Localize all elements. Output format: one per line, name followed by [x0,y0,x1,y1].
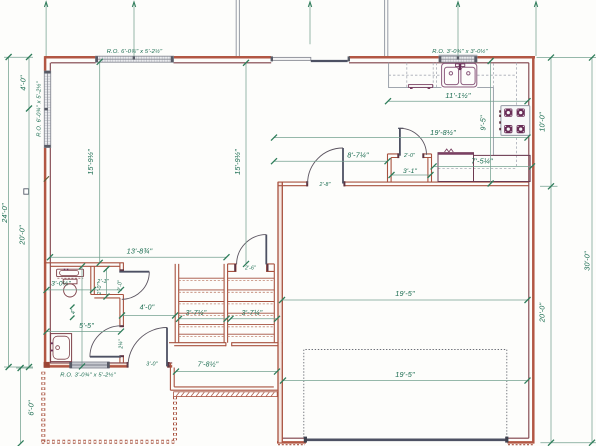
left exterior wall inner line [49,63,51,363]
dim line 13'-8.75 [50,256,227,258]
extension line top left [4,56,33,58]
dim line 19'-5 lower [283,380,528,382]
bar counter top edge [438,152,474,154]
garage door setback dashed outline [304,350,507,438]
stair east wall inner line [273,264,275,343]
stair door left jamb stub [228,264,236,272]
closet left wall [91,266,95,294]
window W3 left wall 6'-0 3/4 x 5'-2 1/2 [44,71,50,148]
svg-text:20'-0": 20'-0" [18,225,27,246]
garage bottom wall outer line [277,441,534,444]
closet south wall [91,295,124,298]
stove knobs [499,110,501,130]
sliding glass door in top wall [271,56,350,61]
svg-text:20'-0": 20'-0" [538,303,547,324]
svg-text:2'-8": 2'-8" [318,182,331,188]
porch dashed border right edge [173,397,177,441]
dim line 30'-0 right [591,58,593,443]
svg-text:4'-0": 4'-0" [140,305,155,312]
porch dashed border bottom edge [42,440,177,444]
dim line 20'-0 right [550,186,552,442]
pantry top wall [388,154,432,158]
left stair run treads [179,278,224,334]
svg-text:11'-1½": 11'-1½" [445,91,470,100]
pantry door cap [398,127,403,129]
interior wall between living/dining and great room: bottom line [278,185,529,187]
stoop bottom wall [170,387,277,390]
svg-text:5'-5": 5'-5" [79,323,94,330]
dim line 9'-5 [490,61,492,184]
stair left wall [175,264,179,343]
bathtub [51,334,72,362]
front door jamb caps [127,362,129,368]
dim line 7'-5.25 [434,165,532,167]
stair room south wall [169,343,282,346]
top exterior wall outer line [44,56,535,59]
dim line 11'-1.5 [388,100,528,102]
dim line 8'-7.25 [274,160,388,162]
svg-text:9'-5": 9'-5" [479,115,488,131]
garage door posts [304,437,307,443]
left stair run tread dashes [179,281,224,337]
svg-text:R.O. 6'-0¾" x 5'-2½": R.O. 6'-0¾" x 5'-2½" [107,48,163,55]
pantry door jamb caps [397,153,399,158]
svg-text:8'-7¼": 8'-7¼" [347,151,369,160]
pantry door 2'-0 leaf [399,128,401,155]
bathroom door 2'-6 leaf [90,356,121,358]
svg-text:7'-8½": 7'-8½" [198,361,219,369]
pantry right wall [428,154,432,182]
hall west wall jamb caps [119,269,124,271]
stove burners [504,109,525,134]
stoop left wall [170,363,174,390]
right stair run tread dashes [228,281,275,337]
apron dashes below garage wall [278,444,535,446]
svg-text:2¼": 2¼" [119,339,125,349]
dining door 2'-8 leaf [342,148,344,184]
electrical outlet symbol [24,189,29,194]
svg-text:3'-7¼": 3'-7¼" [242,310,263,317]
left exterior wall outer line [44,56,47,367]
dining door 2'-8 swing arc [308,148,343,184]
interior wall between living/dining and great room: top line [278,181,529,183]
bath north wall [44,263,123,267]
front entry door 3'-0 leaf [166,328,168,367]
dim line 3'-7.25 stair [231,318,278,320]
right stair run treads [228,278,275,334]
bottom-left exterior wall (bath/hall south) fill band [45,363,71,366]
dim line 4'-0 / 20'-0 left [28,57,30,367]
hall closet door leaf [119,271,149,273]
extension line bottom right [540,442,596,444]
wall mark tick on left wall [44,176,49,181]
svg-text:3'-1": 3'-1" [403,168,418,175]
svg-text:10'-0": 10'-0" [538,112,547,132]
bar counter hatch marks [445,149,454,152]
stair door 2'-6 leaf [265,235,267,265]
svg-text:19'-8½": 19'-8½" [430,128,456,137]
window W1 top wall 6'-0 3/4 x 5'-2 1/2 [95,56,173,62]
svg-text:19'-5": 19'-5" [395,289,415,298]
dim line 10'-0 right [550,58,552,187]
top exterior wall inner line [51,62,529,64]
dim line 24'-0 left [8,57,10,367]
kitchen counter edge right of sink and along right wall [477,88,529,156]
bar counter left section [438,153,474,182]
window W4 bottom wall 3'-0 3/4 x 5'-2 1/2 [69,362,110,368]
svg-text:R.O. 3'-0¾" x 3'-0½": R.O. 3'-0¾" x 3'-0½" [432,48,488,55]
dim line 3'-0.5 / 2'-1 bath [47,289,122,291]
bathroom door swing arc [90,326,121,357]
svg-text:4'-0": 4'-0" [19,75,28,91]
stair divider wall [224,264,228,343]
svg-text:2'-0": 2'-0" [403,153,416,159]
dim line 4'-0 hall [122,315,175,317]
stoop concrete step hatched band [174,392,278,397]
porch dashed border left edge [41,372,45,444]
stair door right jamb stub [267,264,275,272]
extension line bottom left at wall [4,367,33,368]
deck rail lines above top wall (left pair) [236,0,239,56]
dim line 15'-9.5 living east [245,63,247,264]
hall west wall (bath east wall) with door openings [120,263,124,363]
bottom-left exterior wall outer line [44,365,172,368]
window W2 top wall kitchen 3'-0 3/4 x 3'-0 1/2 [439,55,478,62]
dim line 2'-0 closet [106,269,108,297]
kitchen counter edge left of sink [389,63,442,88]
svg-text:R.O. 6'-0¾" x 5'-2½": R.O. 6'-0¾" x 5'-2½" [36,81,43,137]
bathroom vanity [57,269,84,276]
hall closet door swing arc [122,272,150,300]
tick marks [6,54,12,370]
svg-text:30'-0": 30'-0" [583,251,592,271]
svg-text:15'-9½": 15'-9½" [86,149,95,175]
bottom-left exterior wall inner line [50,362,172,364]
svg-text:3'-0½": 3'-0½" [51,280,71,288]
garage bottom wall inner line [282,437,528,439]
svg-text:2'-6": 2'-6" [244,266,257,272]
extension line at interior wall right [540,185,558,187]
extension line top arrows [44,2,47,7]
svg-text:R.O. 3'-0¾" x 5'-2½": R.O. 3'-0¾" x 5'-2½" [60,371,116,378]
dim line 3'-1 pantry [392,174,431,176]
dim line 5'-5 bath [47,331,122,333]
toilet [63,279,77,284]
dim line bath vertical [81,266,83,366]
extension line top right [537,57,596,59]
great room west wall lines [278,182,282,443]
dim line 6'-0 porch [20,368,22,443]
svg-text:24'-0": 24'-0" [0,203,9,224]
upper cabinet dashed lines [389,63,517,169]
svg-text:3'-0": 3'-0" [146,361,158,367]
stove/range [501,106,530,136]
svg-text:7'-5¼": 7'-5¼" [471,157,493,166]
bottom-left wall corner block [44,362,50,368]
pantry left wall [388,154,392,182]
svg-text:2'-0": 2'-0" [118,279,124,292]
dim line 15'-9.5 living west [99,62,101,263]
dim line 19'-8.5 [274,137,528,139]
svg-text:19'-5": 19'-5" [395,370,415,379]
dishwasher [409,85,433,88]
deck rail lines above top wall (right pair) [385,0,388,56]
svg-text:6'-0": 6'-0" [27,400,36,416]
garage door [306,438,506,441]
great room west wall fill [278,182,281,442]
dim line 7'-8.5 stoop [176,371,277,373]
dim line 19'-5 upper [282,299,528,301]
bar counter right section [474,155,531,181]
extension verticals to top edge with arrows [46,2,536,56]
2'-8" door jamb caps [306,181,308,186]
dim line 3'-7.5 stair [179,318,227,320]
svg-text:13'-8¾": 13'-8¾" [127,246,153,255]
right exterior wall outer line [532,56,535,443]
svg-text:15'-9½": 15'-9½" [233,149,242,175]
front entry door swing arc [128,328,167,367]
right exterior wall inner line [528,63,530,438]
svg-text:2'-0": 2'-0" [97,282,103,295]
sink faucet [455,64,464,67]
stair door swing arc [237,235,267,265]
svg-text:3'-7½": 3'-7½" [186,309,207,317]
pantry door swing arc [400,128,427,155]
kitchen sink [442,63,477,87]
